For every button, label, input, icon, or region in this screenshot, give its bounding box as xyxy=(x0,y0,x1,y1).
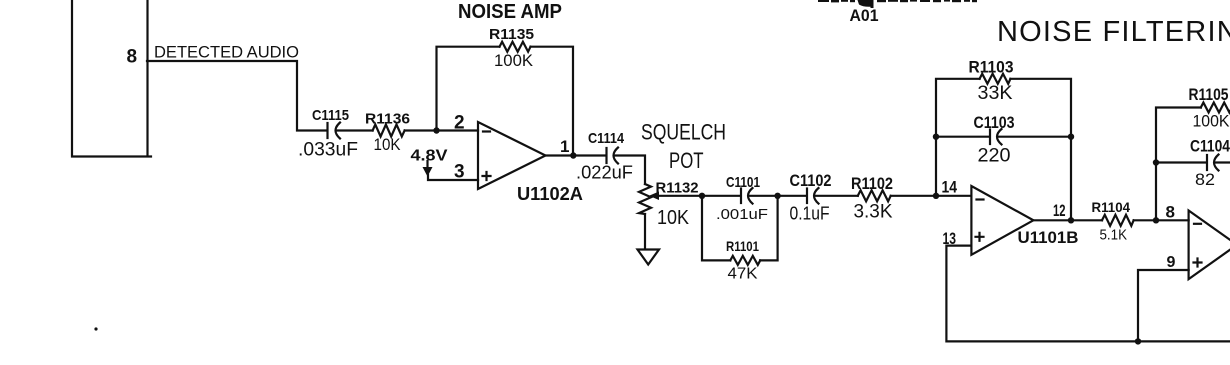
svg-text:DETECTED AUDIO: DETECTED AUDIO xyxy=(154,43,299,62)
svg-text:0.1uF: 0.1uF xyxy=(790,204,830,224)
svg-text:.001uF: .001uF xyxy=(716,206,768,223)
svg-text:C1104: C1104 xyxy=(1190,137,1230,156)
svg-text:.033uF: .033uF xyxy=(298,140,358,161)
svg-text:14: 14 xyxy=(942,178,958,197)
svg-text:220: 220 xyxy=(978,146,1011,167)
svg-text:13: 13 xyxy=(943,229,957,248)
svg-text:SQUELCH: SQUELCH xyxy=(641,120,726,145)
svg-text:R1135: R1135 xyxy=(489,26,534,43)
svg-text:8: 8 xyxy=(127,47,138,68)
svg-text:C1115: C1115 xyxy=(312,107,349,124)
svg-text:100K: 100K xyxy=(494,51,534,70)
svg-text:R1101: R1101 xyxy=(726,238,759,254)
svg-text:NOISE FILTERING: NOISE FILTERING xyxy=(997,16,1230,48)
svg-text:8: 8 xyxy=(1166,203,1175,222)
svg-text:U1102A: U1102A xyxy=(517,184,583,204)
svg-text:R1103: R1103 xyxy=(969,58,1014,77)
svg-text:100K: 100K xyxy=(1193,112,1230,131)
svg-text:1: 1 xyxy=(560,137,569,156)
svg-text:12: 12 xyxy=(1053,201,1066,220)
svg-text:9: 9 xyxy=(1167,254,1176,271)
svg-text:4.8V: 4.8V xyxy=(411,148,448,165)
svg-text:3.3K: 3.3K xyxy=(854,202,893,223)
svg-text:C1103: C1103 xyxy=(974,113,1015,132)
svg-text:2: 2 xyxy=(454,113,465,134)
svg-text:10K: 10K xyxy=(374,135,402,154)
svg-text:C1101: C1101 xyxy=(726,174,760,191)
svg-text:R1102: R1102 xyxy=(851,174,893,193)
svg-text:3: 3 xyxy=(454,162,465,183)
svg-text:R1104: R1104 xyxy=(1092,199,1131,215)
svg-text:POT: POT xyxy=(669,148,704,173)
svg-text:R1136: R1136 xyxy=(365,111,410,128)
svg-text:R1105: R1105 xyxy=(1189,85,1229,104)
svg-text:5.1K: 5.1K xyxy=(1100,227,1128,244)
svg-text:C1114: C1114 xyxy=(588,130,625,147)
svg-text:47K: 47K xyxy=(728,266,758,283)
svg-text:R1132: R1132 xyxy=(656,180,699,197)
svg-text:.022uF: .022uF xyxy=(576,163,633,183)
svg-text:82: 82 xyxy=(1195,170,1215,189)
svg-text:A01: A01 xyxy=(850,6,879,25)
svg-text:U1101B: U1101B xyxy=(1018,228,1079,247)
svg-text:C1102: C1102 xyxy=(790,171,832,190)
svg-text:33K: 33K xyxy=(978,83,1013,104)
svg-text:10K: 10K xyxy=(657,207,690,229)
svg-text:NOISE AMP: NOISE AMP xyxy=(458,1,562,23)
